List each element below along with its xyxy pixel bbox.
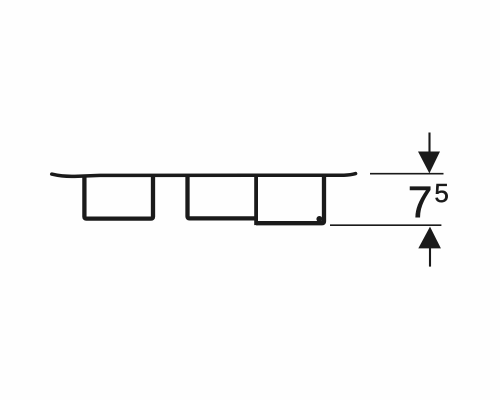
drain dot — [316, 216, 322, 222]
box 2 (middle channel) — [188, 176, 257, 218]
top extension line — [370, 173, 444, 175]
shared divider wall — [254, 176, 258, 223]
top arrow — [418, 152, 440, 174]
bottom extension line — [330, 224, 441, 226]
top dimension leader — [428, 133, 430, 154]
profile top surface line — [52, 174, 356, 177]
bottom dimension leader — [429, 248, 431, 267]
box 3 (right channel, deeper) — [256, 176, 324, 223]
box 1 (left channel) — [84, 176, 153, 219]
bottom arrow — [418, 227, 441, 249]
svg-text:7: 7 — [408, 179, 433, 228]
svg-text:5: 5 — [434, 178, 448, 208]
